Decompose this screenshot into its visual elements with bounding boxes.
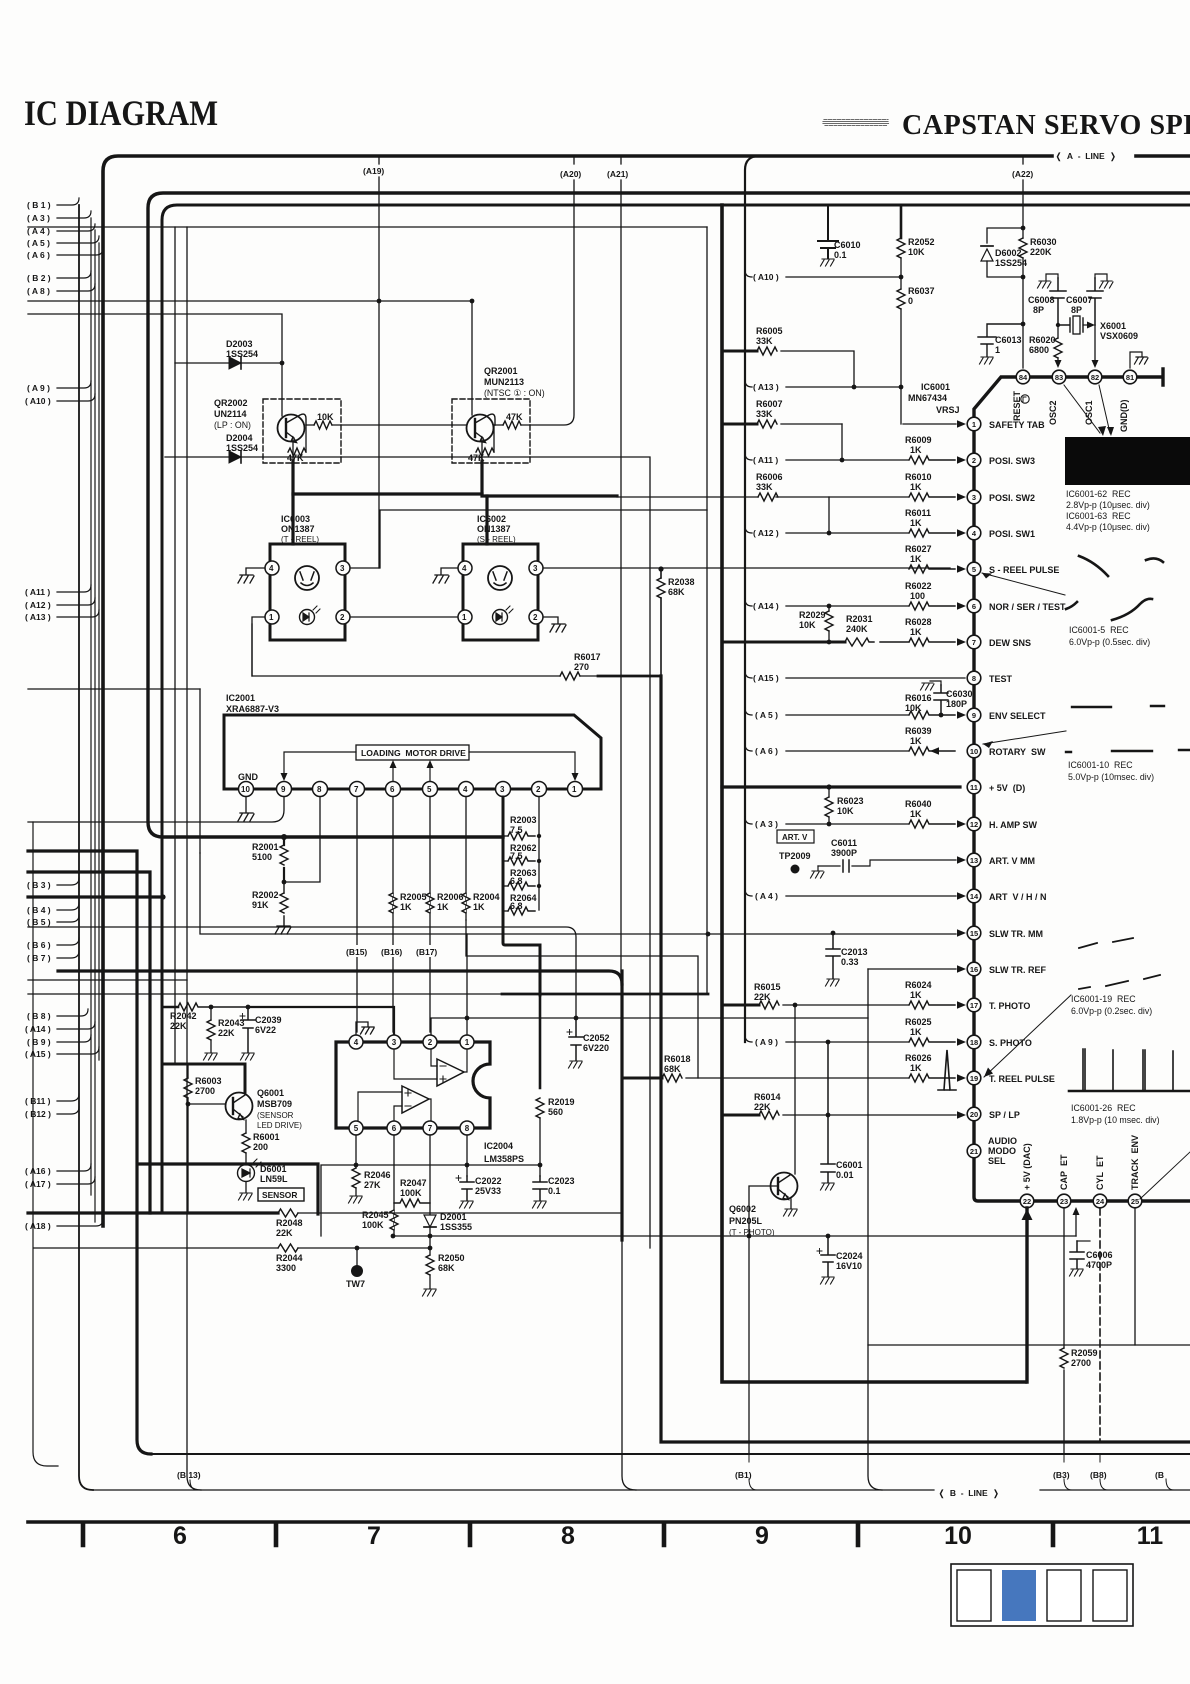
wire: bus3: [162, 205, 1190, 1213]
wire: A12 link vertical: [828, 497, 830, 533]
capacitor C6006: [1070, 1241, 1113, 1276]
svg-text:D2003: D2003: [226, 339, 253, 349]
svg-text:1: 1: [995, 345, 1000, 355]
svg-text:6: 6: [392, 1124, 397, 1133]
svg-text:200: 200: [253, 1142, 268, 1152]
transistor Q6001: [226, 1064, 303, 1130]
svg-text:1K: 1K: [910, 445, 922, 455]
svg-text:IC6002: IC6002: [477, 514, 506, 524]
pin 2: [423, 1035, 437, 1049]
resistor R6005: [722, 326, 854, 387]
svg-text:R6018: R6018: [664, 1054, 691, 1064]
diode D2001: [424, 1212, 472, 1250]
wire: x868 drop: [868, 969, 882, 1490]
svg-text:❬ B - LINE ❭: ❬ B - LINE ❭: [938, 1488, 999, 1499]
svg-text:( A 4 ): ( A 4 ): [27, 226, 50, 236]
svg-text:6.0Vp-p (0.5sec. div): 6.0Vp-p (0.5sec. div): [1069, 637, 1150, 647]
svg-text:(SENSOR: (SENSOR: [257, 1111, 294, 1120]
svg-text:91K: 91K: [252, 900, 269, 910]
photo LED: [493, 610, 508, 625]
wire: horizontal y927: [28, 927, 576, 1018]
wire: horizontal y1345: [868, 1344, 1190, 1346]
svg-text:( A 9 ): ( A 9 ): [27, 383, 50, 393]
wire: horizontal y689: [28, 688, 200, 690]
svg-text:R2004: R2004: [473, 892, 500, 902]
svg-text:4: 4: [354, 1038, 359, 1047]
wire: A19 vertical: [378, 158, 380, 568]
svg-text:S. PHOTO: S. PHOTO: [989, 1038, 1032, 1048]
svg-text:R6017: R6017: [574, 652, 601, 662]
svg-text:VSX0609: VSX0609: [1100, 331, 1138, 341]
svg-text:( A16 ): ( A16 ): [25, 1166, 51, 1176]
svg-text:1K: 1K: [910, 518, 922, 528]
svg-text:C2023: C2023: [548, 1176, 575, 1186]
svg-text:NOR / SER / TEST: NOR / SER / TEST: [989, 602, 1066, 612]
wire: thick y1213: [28, 1211, 278, 1214]
ground (IC6002 pin2 right): [543, 617, 566, 632]
svg-text:47K: 47K: [506, 412, 523, 422]
svg-text:1K: 1K: [910, 554, 922, 564]
pin 1: [458, 610, 472, 624]
svg-text:( A18 ): ( A18 ): [25, 1221, 51, 1231]
svg-text:MSB709: MSB709: [257, 1099, 292, 1109]
pin 2: [532, 782, 547, 797]
wire: horizontal y994: [28, 993, 502, 995]
svg-text:1K: 1K: [910, 736, 922, 746]
transistor QR2002: [214, 398, 341, 463]
resistor R6037: [897, 277, 935, 424]
svg-text:CAPSTAN SERVO SPEE: CAPSTAN SERVO SPEE: [902, 110, 1190, 141]
resistor R2005: [389, 892, 427, 913]
wire: y1165 link: [321, 1165, 540, 1236]
svg-text:10K: 10K: [837, 806, 854, 816]
svg-text:3: 3: [392, 1038, 397, 1047]
resistor R2001: [252, 837, 288, 884]
wire: track env pointer: [1140, 1152, 1190, 1199]
svg-text:SLW TR. REF: SLW TR. REF: [989, 965, 1046, 975]
svg-text:22K: 22K: [170, 1021, 187, 1031]
svg-text:(B8): (B8): [1090, 1470, 1107, 1480]
transistor QR2001: [452, 366, 545, 463]
svg-text:R6026: R6026: [905, 1053, 932, 1063]
svg-text:8: 8: [972, 674, 976, 683]
scope annotation 62/63: [1066, 489, 1150, 532]
svg-text:1SS254: 1SS254: [226, 349, 258, 359]
svg-text:( A10 ): ( A10 ): [25, 396, 51, 406]
svg-text:SEL: SEL: [988, 1156, 1006, 1166]
svg-text:1K: 1K: [910, 1063, 922, 1073]
svg-text:TP2009: TP2009: [779, 851, 811, 861]
resistor 47K (QR2001 collector): [495, 412, 530, 429]
wire: pin25 drop: [1134, 1208, 1136, 1345]
svg-text:CYL ET: CYL ET: [1095, 1155, 1105, 1190]
svg-text:2: 2: [972, 456, 976, 465]
svg-text:68K: 68K: [668, 587, 685, 597]
svg-text:1: 1: [465, 1038, 470, 1047]
wire: +5V thick: [722, 785, 960, 788]
wire: A6 net: [745, 744, 908, 751]
svg-text:270: 270: [574, 662, 589, 672]
svg-text:7: 7: [367, 1522, 381, 1550]
wire: pin16 net: [868, 968, 956, 970]
ruler numbers: [173, 1522, 1163, 1550]
pin 1: [265, 610, 279, 624]
node A16: [57, 1164, 91, 1171]
svg-text:4: 4: [269, 564, 274, 573]
wire: Q6002 base drop to B line: [748, 1236, 750, 1454]
resistor R6015: [754, 982, 908, 1009]
series resistors into pins: [880, 456, 955, 1082]
svg-text:3: 3: [340, 564, 345, 573]
wire: A11 net: [745, 453, 908, 460]
wire: pin4 drop through R2004: [465, 797, 467, 920]
pin 4: [459, 782, 474, 797]
svg-text:R6010: R6010: [905, 472, 932, 482]
svg-text:R6003: R6003: [195, 1076, 222, 1086]
resistor R2059: [1060, 1348, 1098, 1368]
svg-text:16V10: 16V10: [836, 1261, 862, 1271]
capacitor C2024: [817, 1236, 863, 1284]
wire: pin5 drop through R2006: [429, 797, 431, 1032]
svg-text:7: 7: [354, 785, 359, 794]
wire: thick y971: [58, 971, 622, 984]
svg-text:1K: 1K: [910, 809, 922, 819]
svg-text:(B3): (B3): [1053, 1470, 1070, 1480]
svg-text:( A 6 ): ( A 6 ): [755, 746, 778, 756]
wire: A4 net to pin14: [745, 889, 956, 896]
svg-text:C6011: C6011: [831, 838, 857, 848]
motor symbol: [295, 566, 319, 590]
svg-text:7: 7: [972, 638, 976, 647]
node A6: [57, 248, 103, 255]
capacitor C2052: [567, 1016, 610, 1068]
wire: A3 net: [745, 817, 908, 824]
wire: bus2: [148, 193, 1190, 837]
svg-text:11: 11: [1137, 1522, 1164, 1550]
resistor R2064: [503, 893, 537, 915]
svg-text:R2047: R2047: [400, 1178, 427, 1188]
svg-text:83: 83: [1055, 373, 1063, 382]
wire: A14 net: [745, 599, 908, 606]
node junction: [377, 299, 382, 304]
node A4: [57, 224, 95, 231]
wire: pin23 drop: [1063, 1208, 1065, 1454]
svg-text:1SS254: 1SS254: [995, 258, 1027, 268]
svg-text:( B 5 ): ( B 5 ): [27, 917, 51, 927]
wire: left bundle vertical x79: [79, 205, 93, 1490]
svg-text:R2045: R2045: [362, 1210, 389, 1220]
svg-text:220K: 220K: [1030, 247, 1052, 257]
svg-text:25: 25: [1131, 1197, 1139, 1206]
node B1: [57, 198, 79, 205]
resistor R2003: [503, 815, 541, 840]
resistor R6026: [909, 1074, 955, 1082]
svg-text:(NTSC ① : ON): (NTSC ① : ON): [484, 388, 545, 398]
svg-text:R2042: R2042: [170, 1011, 197, 1021]
svg-text:R2031: R2031: [846, 614, 873, 624]
wire: A5 net: [745, 708, 908, 715]
waveform sketch (pin5 REC): [1066, 556, 1163, 620]
node B7: [57, 951, 79, 958]
wire: A10 net: [745, 270, 901, 277]
node A3: [57, 211, 91, 218]
svg-text:10: 10: [241, 785, 250, 794]
pin 4: [265, 561, 279, 575]
svg-text:3: 3: [972, 493, 976, 502]
capacitor C2023: [533, 1176, 575, 1208]
svg-text:( A 9 ): ( A 9 ): [755, 1037, 778, 1047]
svg-text:( B 2 ): ( B 2 ): [27, 273, 51, 283]
IC2001 pin circles 10..1: [239, 782, 583, 797]
wire: horizontal y1454: [149, 1453, 1190, 1455]
wire: A21 vertical: [620, 158, 622, 972]
ground (above IC2004 pin4): [356, 1022, 374, 1035]
svg-text:D6001: D6001: [260, 1164, 287, 1174]
resistor R2048: [276, 1209, 620, 1238]
sheet indicator box: [951, 1564, 1133, 1626]
svg-text:10K: 10K: [799, 620, 816, 630]
svg-text:R6022: R6022: [905, 581, 932, 591]
svg-text:R2050: R2050: [438, 1253, 465, 1263]
ruler ticks: [83, 1524, 1053, 1545]
node B3: [57, 878, 79, 885]
wire: to pin84: [1022, 324, 1024, 368]
svg-text:SENSOR: SENSOR: [262, 1190, 297, 1200]
svg-text:100K: 100K: [400, 1188, 422, 1198]
op-amp U: IC6001 servo IC: [908, 382, 960, 415]
svg-text:R2003: R2003: [510, 815, 537, 825]
svg-text:IC6003: IC6003: [281, 514, 310, 524]
resistor R6014: [754, 1092, 956, 1119]
svg-text:R2044: R2044: [276, 1253, 303, 1263]
wire: pin82 pointer diagonal: [1099, 385, 1110, 433]
svg-text:0: 0: [908, 296, 913, 306]
wire: pin8 drop to R2001 node: [284, 797, 320, 882]
svg-text:POSI. SW1: POSI. SW1: [989, 529, 1035, 539]
wire: OSC1 drop to pin82: [1094, 325, 1096, 362]
wire: pin2 net y1018: [431, 1018, 868, 1035]
wire: LMD to pin1 arrow: [469, 752, 575, 773]
pin 8: [460, 1121, 474, 1135]
svg-text:R6001: R6001: [253, 1132, 280, 1142]
svg-text:C2022: C2022: [475, 1176, 502, 1186]
svg-text:PN205L: PN205L: [729, 1216, 763, 1226]
svg-text:(A20): (A20): [560, 169, 581, 179]
svg-text:22K: 22K: [754, 992, 771, 1002]
svg-text:( B 7 ): ( B 7 ): [27, 953, 51, 963]
wire: B- to pin6: [394, 1106, 402, 1121]
resistor R2029: [799, 606, 833, 642]
svg-text:7.5: 7.5: [510, 825, 523, 835]
svg-text:R6011: R6011: [905, 508, 931, 518]
wire: horizontal y301: [28, 300, 472, 302]
wire: pin6 drop: [393, 1135, 395, 1236]
resistor 47K (QR2002 emitter): [287, 425, 306, 463]
wire: A9 net: [745, 1035, 908, 1042]
label SENSOR: [258, 1188, 304, 1201]
svg-text:24: 24: [1096, 1197, 1105, 1206]
resistor R2002: [252, 882, 288, 925]
svg-text:MN67434: MN67434: [908, 393, 947, 403]
svg-text:LN59L: LN59L: [260, 1174, 288, 1184]
wire: vertical x187: [187, 227, 201, 1490]
svg-text:100: 100: [910, 591, 925, 601]
svg-text:C2013: C2013: [841, 947, 868, 957]
svg-text:5: 5: [354, 1124, 359, 1133]
svg-text:( A11 ): ( A11 ): [753, 455, 778, 465]
wire: y1245 riser: [1075, 1212, 1077, 1236]
capacitor C2039: [240, 1007, 282, 1060]
svg-text:10K: 10K: [317, 412, 334, 422]
svg-text:R6016: R6016: [905, 693, 932, 703]
svg-text:4.4Vp-p (10μsec. div): 4.4Vp-p (10μsec. div): [1066, 522, 1150, 532]
svg-text:15: 15: [970, 929, 978, 938]
wire: horizontal y934 SLW TR MM net: [200, 853, 956, 934]
wire: left bundle vertical x95: [94, 230, 96, 1222]
svg-text:C6010: C6010: [834, 240, 861, 250]
scope annotation 10: [1068, 760, 1154, 782]
wire: R6015 feed thick: [722, 1004, 759, 1007]
svg-text:R2006: R2006: [437, 892, 464, 902]
motor symbol: [488, 566, 512, 590]
svg-text:9: 9: [972, 711, 976, 720]
svg-text:1SS355: 1SS355: [440, 1222, 472, 1232]
wire: B-line y1493: [93, 1489, 1190, 1491]
capacitor C6013: [978, 322, 1025, 364]
svg-text:( A14 ): ( A14 ): [25, 1024, 51, 1034]
svg-text:R6025: R6025: [905, 1017, 932, 1027]
svg-text:( A11 ): ( A11 ): [25, 587, 50, 597]
svg-text:TRACK ENV: TRACK ENV: [1130, 1135, 1140, 1190]
wire: pin2 to A-: [431, 1049, 437, 1066]
svg-text:H. AMP SW: H. AMP SW: [989, 820, 1038, 830]
svg-text:R6009: R6009: [905, 435, 932, 445]
op-amp B: [402, 1086, 429, 1113]
wire: B out to pin7: [429, 1099, 431, 1121]
svg-text:R2001: R2001: [252, 842, 279, 852]
svg-text:180P: 180P: [946, 699, 967, 709]
wire: pin5 to waveform diagonal: [982, 573, 1065, 595]
svg-text:C6013: C6013: [995, 335, 1022, 345]
resistor R2038: [657, 569, 695, 676]
svg-text:R6006: R6006: [756, 472, 783, 482]
svg-text:240K: 240K: [846, 624, 868, 634]
svg-text:(B15): (B15): [346, 947, 367, 957]
svg-text:6.0Vp-p (0.2sec. div): 6.0Vp-p (0.2sec. div): [1071, 1006, 1152, 1016]
wire: A out to pin1: [464, 1049, 467, 1072]
wire: A12 net: [745, 526, 908, 533]
svg-text:R6020: R6020: [1029, 335, 1056, 345]
pin 9: [277, 782, 292, 797]
svg-text:4700P: 4700P: [1086, 1260, 1112, 1270]
resistor R2044: [34, 1234, 1076, 1273]
svg-text:IC2001: IC2001: [226, 693, 255, 703]
wire: sensor drive rail: [163, 1063, 245, 1066]
svg-text:( B 8 ): ( B 8 ): [27, 1011, 51, 1021]
resistor value labels: [905, 435, 932, 1073]
resistor R6028: [880, 638, 955, 646]
wire: A-line top bus: [103, 156, 1190, 1226]
wire: thick stub y897: [28, 895, 163, 898]
pin 7: [423, 1121, 437, 1135]
scope annotation 19: [1071, 994, 1152, 1016]
svg-text:6800: 6800: [1029, 345, 1049, 355]
svg-text:MUN2113: MUN2113: [484, 377, 524, 387]
svg-text:1K: 1K: [910, 482, 922, 492]
svg-text:T. REEL PULSE: T. REEL PULSE: [989, 1074, 1055, 1084]
resistor R6007: [722, 399, 842, 428]
svg-text:560: 560: [548, 1107, 563, 1117]
svg-text:IC6001-63 REC: IC6001-63 REC: [1066, 511, 1131, 521]
wire: pin6 up arrow: [392, 766, 394, 781]
svg-text:47K: 47K: [287, 453, 304, 463]
svg-text:X6001: X6001: [1100, 321, 1126, 331]
svg-text:68K: 68K: [664, 1064, 681, 1074]
resistor R2004: [462, 892, 500, 913]
capacitor C6011: [811, 838, 957, 878]
svg-text:Q6002: Q6002: [729, 1204, 756, 1214]
svg-text:( A12 ): ( A12 ): [753, 528, 779, 538]
label ART.V testpoint: [777, 830, 814, 874]
svg-text:22K: 22K: [218, 1028, 235, 1038]
resistor R6011: [909, 529, 955, 537]
svg-text:84: 84: [1019, 373, 1028, 382]
resistor R2062: [503, 843, 541, 865]
svg-text:R6039: R6039: [905, 726, 932, 736]
svg-text:10K: 10K: [905, 703, 922, 713]
svg-text:(LP : ON): (LP : ON): [214, 420, 251, 430]
svg-text:( A 5 ): ( A 5 ): [755, 710, 778, 720]
svg-text:S - REEL PULSE: S - REEL PULSE: [989, 565, 1059, 575]
wire: pin10 pointer diagonal: [983, 731, 1066, 744]
svg-text:6: 6: [173, 1522, 187, 1550]
resistor R6016: [909, 711, 955, 719]
wire: emitter rail to R6006: [617, 496, 758, 498]
ground (IC2001 pin10): [238, 797, 254, 821]
svg-text:2: 2: [428, 1038, 433, 1047]
svg-text:ENV SELECT: ENV SELECT: [989, 711, 1046, 721]
resistor R6030: [1019, 228, 1057, 324]
svg-text:8P: 8P: [1033, 305, 1044, 315]
wire: QR2001 emitter thick: [482, 461, 617, 496]
photo LED: [300, 610, 315, 625]
wire: x540 thick drop to R2019: [539, 995, 542, 1088]
resistor R2045: [362, 1210, 398, 1230]
svg-text:1: 1: [462, 613, 467, 622]
pin 2: [529, 610, 543, 624]
node B16: [379, 945, 405, 957]
node B8: [57, 1009, 88, 1016]
svg-text:XRA6887-V3: XRA6887-V3: [226, 704, 279, 714]
svg-text:5: 5: [972, 565, 976, 574]
svg-text:MODO: MODO: [988, 1146, 1016, 1156]
svg-text:(T - PHOTO): (T - PHOTO): [729, 1228, 775, 1237]
svg-text:+ 5V (D): + 5V (D): [989, 783, 1025, 793]
crystal X6001: [1056, 316, 1138, 341]
ruler baseline: [28, 1520, 1190, 1524]
node A18: [57, 1219, 103, 1226]
svg-text:TW7: TW7: [346, 1279, 365, 1289]
svg-text:(B: (B: [1155, 1470, 1164, 1480]
svg-text:13: 13: [970, 856, 978, 865]
svg-text:R2002: R2002: [252, 890, 279, 900]
resistor R6023: [825, 787, 864, 824]
svg-text:R6037: R6037: [908, 286, 935, 296]
svg-text:10K: 10K: [908, 247, 925, 257]
svg-text:IC6001-19 REC: IC6001-19 REC: [1071, 994, 1136, 1004]
ground (IC6002 pin4 left): [433, 568, 458, 583]
pins 22-25 bottom: [1020, 1194, 1142, 1208]
